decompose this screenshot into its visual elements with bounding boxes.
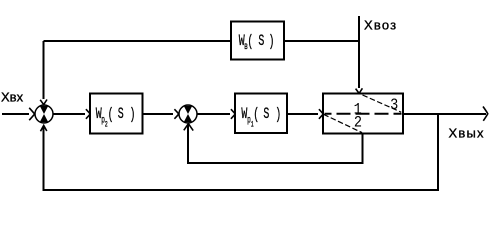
- arrowhead into S1 top: [40, 100, 47, 105]
- summing junction S2 bowtie bottom triangle: [184, 114, 193, 122]
- switch block SW1 rectangle: [323, 94, 403, 134]
- wire input Xvx to summing junction S1: [2, 113, 29, 115]
- wire SW1 output to Xvyh: [403, 113, 486, 115]
- svg-text:S: S: [258, 32, 264, 50]
- block Wp1 label: [241, 105, 281, 129]
- svg-text:): ): [130, 105, 136, 123]
- arrowhead into Wp2: [86, 109, 90, 119]
- summing junction S1 bowtie top triangle: [40, 106, 49, 114]
- wire Wp2 to summing junction S2: [143, 113, 174, 115]
- svg-text:(: (: [253, 105, 259, 123]
- wire SW1 bottom exit vertical: [362, 134, 364, 164]
- arrowhead into S2 bottom: [184, 124, 193, 131]
- arrowhead into S2 left: [174, 109, 178, 119]
- svg-text:W: W: [241, 105, 247, 123]
- wire top feedback vertical into S1: [43, 41, 45, 99]
- wire bottom feedback vertical into S1: [43, 126, 45, 190]
- wire inner feedback horizontal: [187, 162, 364, 164]
- wire S2 to block Wp1: [197, 113, 230, 115]
- svg-text:S: S: [263, 105, 269, 123]
- svg-text:Хвоз: Хвоз: [364, 18, 397, 33]
- switch SW1 dashed channel 1 line: [325, 113, 402, 115]
- wire outer feedback horizontal: [43, 189, 440, 191]
- block Wp1 rectangle: [235, 94, 287, 134]
- summing junction S2 circle: [179, 105, 197, 123]
- wire outer feedback vertical right: [437, 114, 439, 190]
- svg-text:2: 2: [354, 115, 362, 132]
- switch SW1 diagonal channel 3 line: [363, 95, 402, 112]
- wire Wp1 to switch block SW1: [287, 113, 318, 115]
- svg-text:3: 3: [390, 97, 398, 114]
- wire inner feedback vertical into S2: [187, 125, 189, 163]
- wire top line from Wv output to S1: [44, 40, 360, 42]
- svg-text:(: (: [108, 105, 114, 123]
- block Wp2 rectangle: [90, 94, 143, 134]
- svg-text:): ): [275, 105, 281, 123]
- svg-text:(: (: [247, 32, 253, 50]
- arrowhead output end: [483, 107, 488, 121]
- arrowhead into Wp1: [231, 109, 235, 119]
- block Wv label: [239, 32, 275, 53]
- arrowhead into SW1 top: [356, 88, 363, 93]
- svg-text:): ): [269, 32, 275, 50]
- summing junction S1 bowtie bottom triangle: [40, 114, 49, 122]
- block Wp2 label: [96, 105, 136, 129]
- wire Xvoz vertical: [358, 16, 360, 88]
- summing junction S1 circle: [35, 105, 53, 123]
- block Wv rectangle: [231, 22, 284, 60]
- svg-text:Хвх: Хвх: [1, 90, 24, 105]
- arrowhead into S1 bottom: [41, 125, 47, 131]
- svg-text:S: S: [118, 105, 124, 123]
- arrowhead into S1 left: [29, 108, 34, 120]
- summing junction S2 bowtie top triangle: [184, 106, 193, 114]
- svg-text:Хвых: Хвых: [449, 126, 485, 141]
- wire S1 to block Wp2: [53, 113, 85, 115]
- arrowhead into SW1 left: [319, 109, 323, 119]
- switch SW1 diagonal channel 2 line: [324, 114, 363, 132]
